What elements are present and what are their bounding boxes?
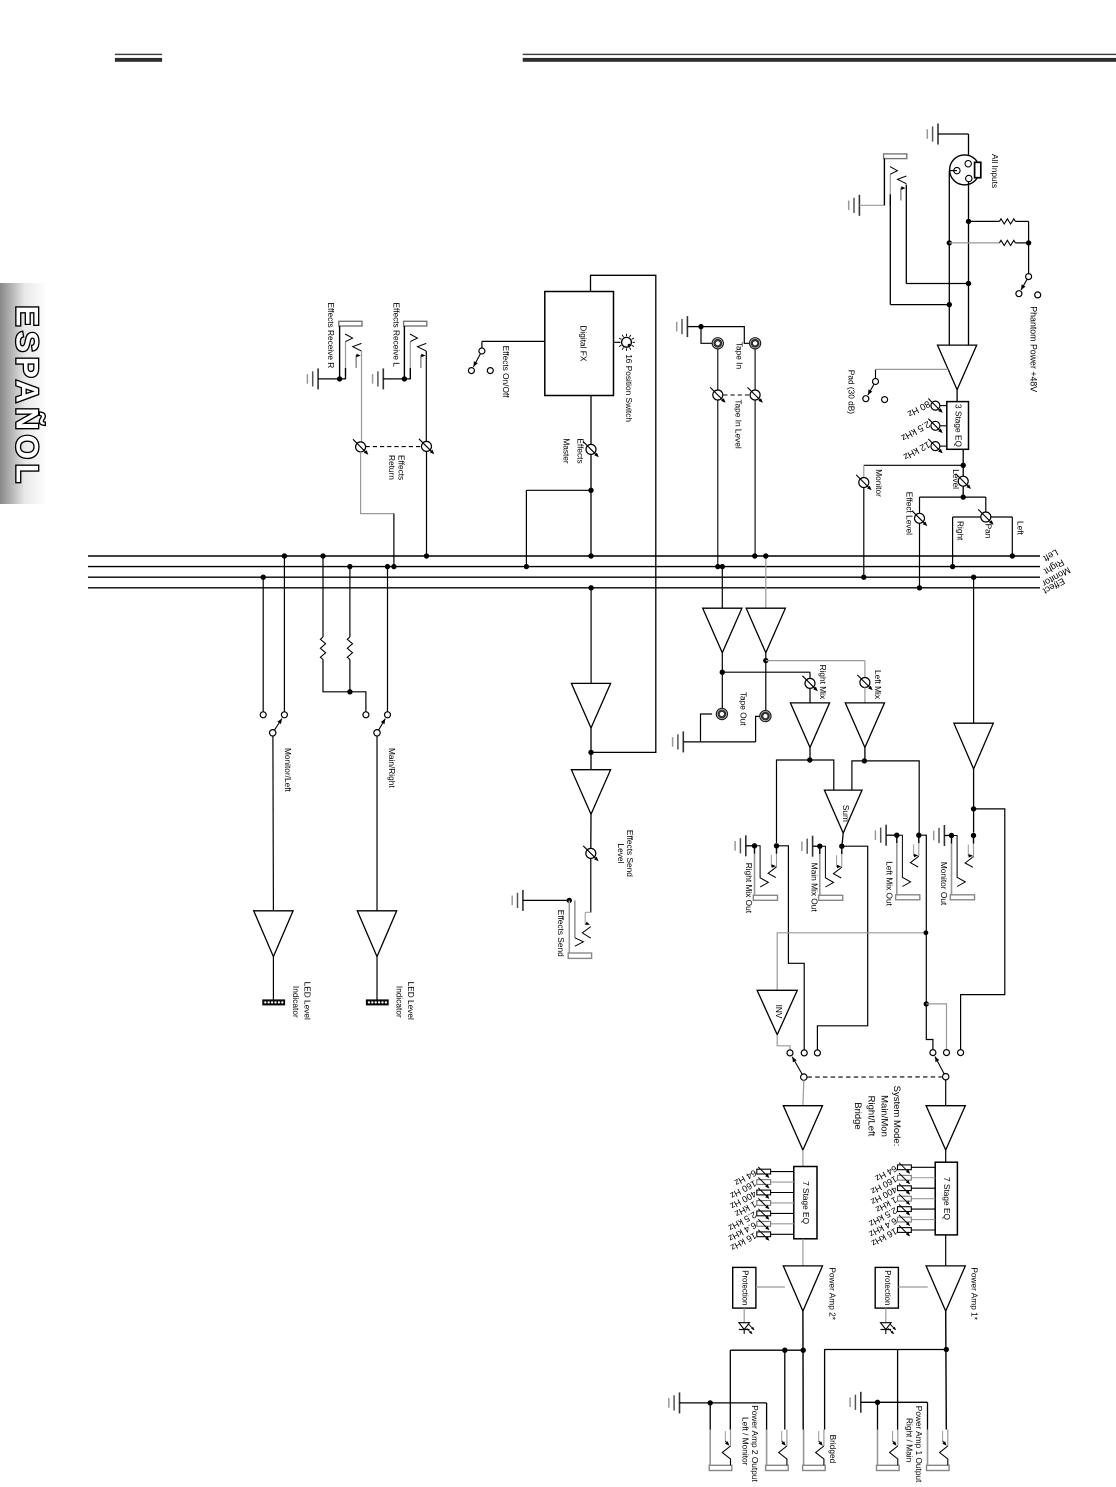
potentiometer: channel Level bbox=[958, 476, 968, 486]
wire: protection ch2 to LED bbox=[743, 1308, 745, 1321]
block: Protection ch2 bbox=[733, 1267, 756, 1308]
node: tape L split bbox=[763, 658, 768, 663]
node: right bus drop bbox=[385, 564, 390, 569]
svg-text:Bridged: Bridged bbox=[828, 1435, 838, 1464]
contact: monitor/left A bbox=[260, 712, 266, 718]
wire: tape buffer R out bbox=[721, 653, 723, 709]
bus: Left bbox=[88, 555, 1040, 557]
wire: monitor amp out bbox=[973, 769, 975, 833]
ground: tape in bbox=[686, 316, 688, 337]
wire: protection ch1 link bbox=[898, 1286, 927, 1288]
wire: left bus to tape amp bbox=[765, 556, 767, 608]
svg-text:Bridge: Bridge bbox=[852, 1102, 863, 1129]
wire: left mix to mode contact 1 bbox=[926, 1004, 933, 1050]
node: spk ch1 ground tap bbox=[875, 1400, 880, 1405]
wire: right mix amp out bbox=[809, 747, 811, 760]
svg-text:Sum: Sum bbox=[841, 805, 851, 822]
wire: monitor to mode contact 3 bbox=[961, 809, 1005, 1050]
op-amp: monitor amp bbox=[954, 723, 993, 769]
wire: pa1 to bridged jack bbox=[825, 1350, 947, 1430]
node: pa2 out junction bbox=[801, 1348, 806, 1353]
slider: ch1 160 Hz bbox=[898, 1175, 912, 1180]
wire: EQ ch2 slider stubs bbox=[771, 1171, 794, 1173]
svg-text:Digital FX: Digital FX bbox=[579, 325, 589, 361]
connector: Tape In L (RCA) bbox=[712, 338, 723, 349]
node: right mix split bbox=[807, 757, 812, 762]
resistor: left sum bbox=[320, 637, 325, 660]
wire: pa1 to jack4 tip bbox=[897, 1350, 899, 1430]
svg-text:Main Mix Out: Main Mix Out bbox=[809, 863, 819, 913]
node: left bus drop bbox=[282, 553, 287, 558]
wire: left bus drop bbox=[283, 556, 285, 712]
ground: speaker outs ch1 bbox=[860, 1392, 862, 1413]
node: monitor bus drop bbox=[261, 575, 266, 580]
ground: XLR input bbox=[937, 124, 939, 145]
connector: Tape Out R (RCA) bbox=[716, 708, 727, 719]
svg-text:Effects Receive R: Effects Receive R bbox=[326, 303, 336, 369]
rotary switch: 16 position bbox=[622, 337, 632, 347]
slider: ch2 2.5 kHz bbox=[757, 1211, 771, 1216]
wire: preamp to 3-stage EQ bbox=[956, 390, 958, 402]
node: left bus tape tap bbox=[763, 553, 768, 558]
jack: Main Mix Out bbox=[817, 844, 822, 849]
svg-text:Effects Send: Effects Send bbox=[556, 910, 566, 957]
svg-text:Tape Out: Tape Out bbox=[739, 692, 749, 726]
wire: tape out sleeve L bbox=[701, 714, 713, 742]
potentiometer: Effects Return L bbox=[422, 441, 432, 451]
svg-text:Left / Monitor: Left / Monitor bbox=[741, 1417, 751, 1466]
svg-text:INV: INV bbox=[774, 1005, 784, 1019]
wire: line input tip to pin3 net bbox=[905, 185, 907, 284]
wire: mode B to amp bbox=[945, 1080, 947, 1106]
slider: ch1 400 Hz bbox=[898, 1186, 912, 1191]
node: level out junction bbox=[961, 494, 966, 499]
slider: ch2 16 kHz bbox=[757, 1232, 771, 1237]
potentiometer: Pan bbox=[981, 512, 991, 522]
wire: pad to preamp bbox=[876, 368, 949, 370]
switch: Effects On/Off bbox=[481, 341, 483, 348]
wire: spk ch2 sleeves bbox=[709, 1403, 711, 1430]
node: sum resistors junction bbox=[347, 689, 352, 694]
wire: tape R to level pot bbox=[754, 349, 756, 390]
node: ring/pin2 junction bbox=[947, 302, 952, 307]
jack: Effects Send bbox=[568, 900, 570, 953]
page header short rule bbox=[115, 54, 162, 55]
connector: Tape In R (RCA) bbox=[750, 338, 761, 349]
wire: power amp 2 out bbox=[802, 1311, 804, 1429]
block: 7 Stage EQ ch1 bbox=[935, 1162, 957, 1235]
slider: ch1 2.5 kHz bbox=[898, 1207, 912, 1212]
svg-text:7 Stage EQ: 7 Stage EQ bbox=[801, 1181, 811, 1224]
svg-text:LED Level: LED Level bbox=[303, 982, 313, 1020]
LED: ch1 protection bbox=[885, 1320, 887, 1322]
wire: INV feed bbox=[777, 933, 926, 991]
op-amp: LED driver 1 bbox=[254, 911, 293, 957]
wire: level to pan bbox=[963, 496, 986, 498]
node: monitor out split bbox=[971, 806, 976, 811]
switch: Monitor/Left select bbox=[270, 730, 276, 736]
op-amp: ch2 buffer bbox=[783, 1106, 822, 1150]
contact: mode A inv bbox=[787, 1050, 793, 1056]
node: left bus resistor tap bbox=[320, 553, 325, 558]
op-amp: tape out buffer L bbox=[746, 608, 785, 653]
wire: tape L to left mix pot bbox=[766, 660, 865, 662]
wire: return L to left bus bbox=[426, 451, 428, 556]
svg-text:Effect Level: Effect Level bbox=[905, 492, 915, 535]
slider: ch1 6.4 kHz bbox=[898, 1217, 912, 1222]
wire: effects master branch to right bus bbox=[526, 489, 591, 491]
node: receive R sleeve junction bbox=[337, 376, 342, 381]
wire: XLR pin 2 down bbox=[949, 170, 957, 172]
wire: tape L pot to right bus bbox=[717, 400, 719, 567]
op-amp: Power Amp 1 bbox=[926, 1266, 965, 1311]
slider: ch1 16 kHz bbox=[898, 1228, 912, 1233]
contact: mode A sum bbox=[814, 1050, 820, 1056]
contact: mode B left bbox=[930, 1050, 936, 1056]
slider: ch1 1 kHz bbox=[898, 1196, 912, 1201]
svg-text:Protection: Protection bbox=[883, 1270, 892, 1305]
jack: Power Amp 2 Output 1 bbox=[709, 1430, 711, 1466]
svg-text:LED Level: LED Level bbox=[406, 982, 416, 1020]
bus: Effect bbox=[88, 587, 1040, 589]
block: Protection ch1 bbox=[875, 1267, 898, 1308]
wire: right mix to sum bbox=[810, 760, 834, 790]
page header long rule bbox=[523, 54, 1116, 55]
wire: effects send return loop bbox=[591, 275, 656, 752]
svg-text:Protection: Protection bbox=[740, 1270, 749, 1305]
wire: right bus to sum resistor bbox=[349, 567, 351, 637]
wire: level out bbox=[962, 486, 964, 497]
slider: ch2 6.4 kHz bbox=[757, 1221, 771, 1226]
svg-text:Power Amp 1 Output: Power Amp 1 Output bbox=[914, 1406, 924, 1483]
svg-text:Level: Level bbox=[951, 469, 961, 489]
wire: pan left to left bus bbox=[991, 516, 1013, 518]
node: left bus tap bbox=[1010, 553, 1015, 558]
resistor: phantom feed R2 bbox=[949, 242, 999, 244]
LED: ch2 protection bbox=[743, 1320, 745, 1322]
svg-text:3 Stage EQ: 3 Stage EQ bbox=[954, 404, 964, 447]
wire: effect pot to effect bus bbox=[919, 523, 921, 588]
potentiometer: EQ 12 kHz bbox=[931, 442, 940, 451]
wire: monitor tap bbox=[864, 464, 963, 466]
node: pa2 jack2 tap bbox=[782, 1348, 787, 1353]
wire: resistor R join bbox=[349, 660, 351, 692]
ground: effects receive R bbox=[317, 368, 319, 389]
slider: ch2 1 kHz bbox=[757, 1201, 771, 1206]
svg-text:Left: Left bbox=[1015, 521, 1025, 536]
jack: Power Amp 2 Output 2 bbox=[766, 1430, 768, 1466]
wire: phantom resistors to switch bbox=[1028, 221, 1030, 273]
svg-text:Main/Right: Main/Right bbox=[387, 748, 397, 788]
potentiometer: Effects Return R bbox=[356, 442, 366, 452]
jack: Bridged bbox=[803, 1430, 805, 1466]
wire: send buffer out bbox=[590, 728, 592, 770]
ground: line input jack bbox=[858, 195, 860, 216]
svg-text:Power Amp 1*: Power Amp 1* bbox=[970, 1267, 980, 1320]
node: effects master junction bbox=[588, 488, 593, 493]
ground: speaker outs ch2 bbox=[679, 1392, 681, 1413]
node: effects send sleeve bbox=[567, 898, 572, 903]
node: pa1 out junction bbox=[944, 1347, 949, 1352]
slider: ch2 64 Hz bbox=[757, 1169, 771, 1174]
svg-text:Pan: Pan bbox=[984, 524, 994, 539]
wire: tape R pot to left bus bbox=[754, 400, 756, 556]
node: right bus tape tap bbox=[720, 564, 725, 569]
svg-text:Phantom Power +48V: Phantom Power +48V bbox=[1028, 306, 1038, 392]
wire: left mix amp out bbox=[864, 747, 866, 761]
op-amp: Power Amp 2 bbox=[783, 1266, 822, 1311]
wire: left mix pot to amp bbox=[864, 687, 866, 703]
op-amp: right mix amp bbox=[790, 703, 829, 748]
op-amp: tape out buffer R bbox=[703, 608, 742, 653]
bus: Monitor bbox=[88, 576, 1040, 578]
node: pin2/R2 junction bbox=[947, 240, 952, 245]
jack: Power Amp 1 Output 2 bbox=[927, 1430, 929, 1466]
wire: monitor/left to LED amp bbox=[272, 736, 275, 911]
wire: receive L tip to return pot bbox=[425, 351, 427, 442]
svg-text:Master: Master bbox=[562, 438, 572, 464]
potentiometer: EQ 80 Hz bbox=[931, 401, 940, 410]
wire: tape out sleeve R bbox=[756, 716, 760, 742]
op-amp: effects send buffer 2 bbox=[571, 770, 610, 815]
ground: monitor out bbox=[943, 825, 945, 846]
svg-text:ESPAÑOL: ESPAÑOL bbox=[9, 306, 45, 488]
node: effect bus send tap bbox=[588, 585, 593, 590]
svg-text:Effects Receive L: Effects Receive L bbox=[392, 303, 402, 368]
block: 7 Stage EQ ch2 bbox=[794, 1167, 817, 1239]
wire: spk ch1 sleeves bbox=[877, 1402, 879, 1429]
svg-text:Effects: Effects bbox=[575, 438, 585, 463]
wire: right bus to tape amp bbox=[721, 567, 723, 609]
ground: tape out bbox=[682, 731, 684, 752]
potentiometer: Right Mix bbox=[805, 678, 815, 688]
potentiometer: Effects Send Level bbox=[586, 848, 596, 858]
op-amp: LED driver 2 bbox=[357, 911, 396, 957]
wire: EQ pot stubs bbox=[940, 405, 947, 407]
node: receive L sleeve junction bbox=[402, 376, 407, 381]
svg-text:Power Amp 2*: Power Amp 2* bbox=[827, 1267, 837, 1320]
wire: monitor pot to monitor bus bbox=[863, 487, 865, 577]
wire: return gang (dashed) bbox=[366, 446, 422, 448]
wire: return R to right bus bbox=[361, 452, 394, 514]
wire: monitor bus drop bbox=[262, 577, 264, 711]
wire: mode gang (dashed) bbox=[808, 1076, 942, 1078]
svg-text:Right / Main: Right / Main bbox=[904, 1418, 914, 1463]
switch: Phantom Power bbox=[1026, 274, 1032, 280]
node: return L on left bus bbox=[424, 553, 429, 558]
potentiometer: EQ 2.5 kHz bbox=[931, 421, 940, 430]
wire: tape buffer L out bbox=[765, 653, 767, 711]
ground: main mix out bbox=[812, 836, 814, 857]
wire: effect tap bbox=[920, 496, 964, 498]
node: effects loop junction bbox=[588, 750, 593, 755]
wire: right mix pot to amp bbox=[809, 688, 811, 703]
wire: effect bus to send amp bbox=[590, 588, 592, 684]
svg-text:Monitor/Left: Monitor/Left bbox=[283, 748, 293, 793]
ground: effects send bbox=[522, 890, 524, 911]
wire: main mix out stair to mode switch bbox=[817, 846, 867, 1049]
op-amp: effects send buffer 1 bbox=[571, 683, 610, 728]
ground: effects receive L bbox=[382, 368, 384, 389]
wire: send level to jack bbox=[590, 858, 592, 912]
resistor: phantom feed R1 bbox=[969, 220, 1000, 222]
potentiometer: Effects Master bbox=[586, 444, 596, 454]
wire: pan right to right bus bbox=[953, 516, 982, 518]
jack: channel line input bbox=[884, 154, 907, 159]
node: left mix split bbox=[862, 758, 867, 763]
node: tape L on right bus bbox=[715, 564, 720, 569]
svg-text:Main/Mon: Main/Mon bbox=[879, 1095, 890, 1137]
wire: Digital FX out bbox=[590, 396, 592, 445]
wire: left mix to sum bbox=[852, 761, 865, 790]
potentiometer: Tape In Level R bbox=[750, 390, 760, 400]
svg-text:Monitor Out: Monitor Out bbox=[939, 862, 949, 906]
node: INV feed tap bbox=[924, 930, 929, 935]
jack: Right Mix Out bbox=[752, 843, 757, 848]
ground: left mix out bbox=[885, 825, 887, 846]
op-amp: ch1 buffer bbox=[926, 1106, 965, 1150]
potentiometer: Effect Level bbox=[915, 513, 925, 523]
LED bar: indicator 2 bbox=[366, 1000, 388, 1005]
LED bar: indicator 1 bbox=[263, 1000, 285, 1005]
svg-text:All Inputs: All Inputs bbox=[990, 154, 1000, 188]
wire: protection ch2 link bbox=[756, 1286, 785, 1288]
node: monitor bus tap bbox=[861, 575, 866, 580]
wire: right mix out stair to mode switch bbox=[777, 846, 805, 1050]
node: right bus resistor tap bbox=[347, 564, 352, 569]
wire: left bus to sum resistor bbox=[322, 556, 324, 637]
svg-text:Tape In Level: Tape In Level bbox=[733, 399, 743, 449]
wire: LED amp 2 out bbox=[376, 957, 378, 1000]
wire: right bus drop bbox=[387, 567, 389, 712]
wire: INV out to contact bbox=[777, 1035, 790, 1050]
node: branch on right bus bbox=[524, 564, 529, 569]
switch: Pad (30 dB) bbox=[875, 369, 877, 378]
contact: main/right B bbox=[385, 712, 391, 718]
node: effects master on left bus bbox=[588, 553, 593, 558]
wire: monitor gray to mode contact 2 bbox=[926, 1004, 946, 1050]
wire: EQ ch1 to power amp bbox=[945, 1235, 947, 1266]
wire: right mix to out jack bbox=[777, 760, 810, 843]
wire: line input ring to pin2 net bbox=[889, 201, 891, 305]
wire: XLR pin 3 down bbox=[968, 182, 970, 345]
block: Digital FX bbox=[545, 292, 614, 396]
svg-text:Left Mix Out: Left Mix Out bbox=[885, 861, 895, 906]
node: effect bus tap bbox=[917, 585, 922, 590]
ESPANOL side tab bbox=[0, 283, 46, 504]
wire: EQ ch2 to power amp bbox=[802, 1239, 804, 1266]
node: tape R split bbox=[720, 670, 725, 675]
contact: monitor/left B bbox=[281, 712, 287, 718]
wire: pa2 to speaker jacks bbox=[730, 1349, 803, 1351]
svg-text:Left Mix: Left Mix bbox=[873, 670, 883, 700]
node: tape ground junction bbox=[698, 324, 703, 329]
op-amp: INV bbox=[757, 990, 797, 1034]
svg-text:Effects On/Off: Effects On/Off bbox=[501, 346, 511, 398]
node: return R on right bus bbox=[391, 564, 396, 569]
node: EQ out junction bbox=[961, 463, 966, 468]
potentiometer: Tape In Level L bbox=[713, 390, 723, 400]
svg-text:Level: Level bbox=[616, 843, 626, 863]
svg-text:Pad (30 dB): Pad (30 dB) bbox=[846, 370, 856, 415]
jack: Power Amp 1 Output 1 bbox=[877, 1430, 879, 1466]
wire: tape level gang (dashed) bbox=[723, 394, 750, 396]
XLR connector (All Inputs) bbox=[950, 155, 980, 185]
bus: Right bbox=[88, 566, 1040, 568]
op-amp: input preamp bbox=[938, 345, 977, 390]
node: tape R on left bus bbox=[752, 553, 757, 558]
wire: buffer 2 to send level bbox=[590, 814, 592, 849]
switch: system mode A bbox=[801, 1074, 807, 1080]
wire: ch1 buffer to EQ bbox=[945, 1150, 947, 1162]
wire: sum out bbox=[842, 833, 843, 843]
slider: ch1 64 Hz bbox=[898, 1165, 912, 1170]
contact: mode B right bbox=[958, 1050, 964, 1056]
svg-text:Right: Right bbox=[956, 521, 966, 541]
svg-text:Tape In: Tape In bbox=[735, 342, 745, 370]
contact: main/right A bbox=[363, 712, 369, 718]
wire: resistor L to switch bbox=[323, 660, 366, 712]
svg-text:Indicator: Indicator bbox=[291, 986, 301, 1018]
wire: EQ out bbox=[962, 449, 964, 476]
wire: tape R to right mix pot bbox=[722, 671, 810, 673]
op-amp: Sum bbox=[824, 790, 862, 833]
switch: Main/Right select bbox=[374, 730, 380, 736]
svg-text:Return: Return bbox=[387, 455, 397, 480]
contact: mode A main bbox=[801, 1050, 807, 1056]
svg-text:Indicator: Indicator bbox=[395, 986, 405, 1018]
potentiometer: Monitor send bbox=[859, 478, 869, 488]
node: spk ch2 ground tap bbox=[708, 1400, 713, 1405]
node: tip/pin3 junction bbox=[966, 281, 971, 286]
jack: Effects Receive R bbox=[339, 321, 362, 326]
potentiometer: Left Mix bbox=[860, 678, 870, 688]
resistor: right sum bbox=[347, 637, 352, 660]
svg-text:System Mode:: System Mode: bbox=[891, 1086, 902, 1147]
jack: Monitor Out bbox=[949, 833, 954, 838]
wire: ch2 buffer to EQ bbox=[802, 1150, 804, 1167]
svg-text:Effects: Effects bbox=[396, 455, 406, 480]
slider: ch2 400 Hz bbox=[757, 1190, 771, 1195]
node: right bus tap bbox=[950, 564, 955, 569]
svg-text:7 Stage EQ: 7 Stage EQ bbox=[942, 1177, 952, 1220]
wire: tape L to level pot bbox=[717, 349, 719, 390]
svg-text:Monitor: Monitor bbox=[874, 469, 884, 497]
block: 3 Stage EQ bbox=[947, 402, 969, 450]
ground: right mix out bbox=[745, 835, 747, 856]
wire: tape ground to jacks bbox=[701, 327, 749, 344]
wire: receive R tip to return pot bbox=[361, 351, 363, 442]
svg-text:Right/Left: Right/Left bbox=[865, 1096, 876, 1137]
connector: Tape Out L (RCA) bbox=[760, 711, 771, 722]
jack: Effects Receive L bbox=[404, 321, 427, 326]
node: monitor bus out tap bbox=[971, 575, 976, 580]
wire: mode A to amp bbox=[802, 1080, 805, 1105]
contact: mode B monitor bbox=[944, 1050, 950, 1056]
wire: power amp 1 out bbox=[945, 1311, 948, 1429]
wire: EQ ch1 slider stubs bbox=[911, 1166, 935, 1168]
node: pin3/R1 junction bbox=[966, 219, 971, 224]
svg-text:16 Position Switch: 16 Position Switch bbox=[624, 354, 634, 422]
node: R1/R2 common bbox=[1026, 240, 1031, 245]
svg-text:Right Mix Out: Right Mix Out bbox=[744, 863, 754, 914]
op-amp: left mix amp bbox=[845, 703, 884, 748]
wire: left mix to out jack bbox=[864, 761, 919, 833]
wire: protection ch1 to LED bbox=[885, 1308, 887, 1321]
wire: left mix out down bbox=[919, 835, 926, 1004]
jack: Left Mix Out bbox=[894, 833, 899, 838]
wire: effects master to buses bbox=[590, 454, 592, 556]
